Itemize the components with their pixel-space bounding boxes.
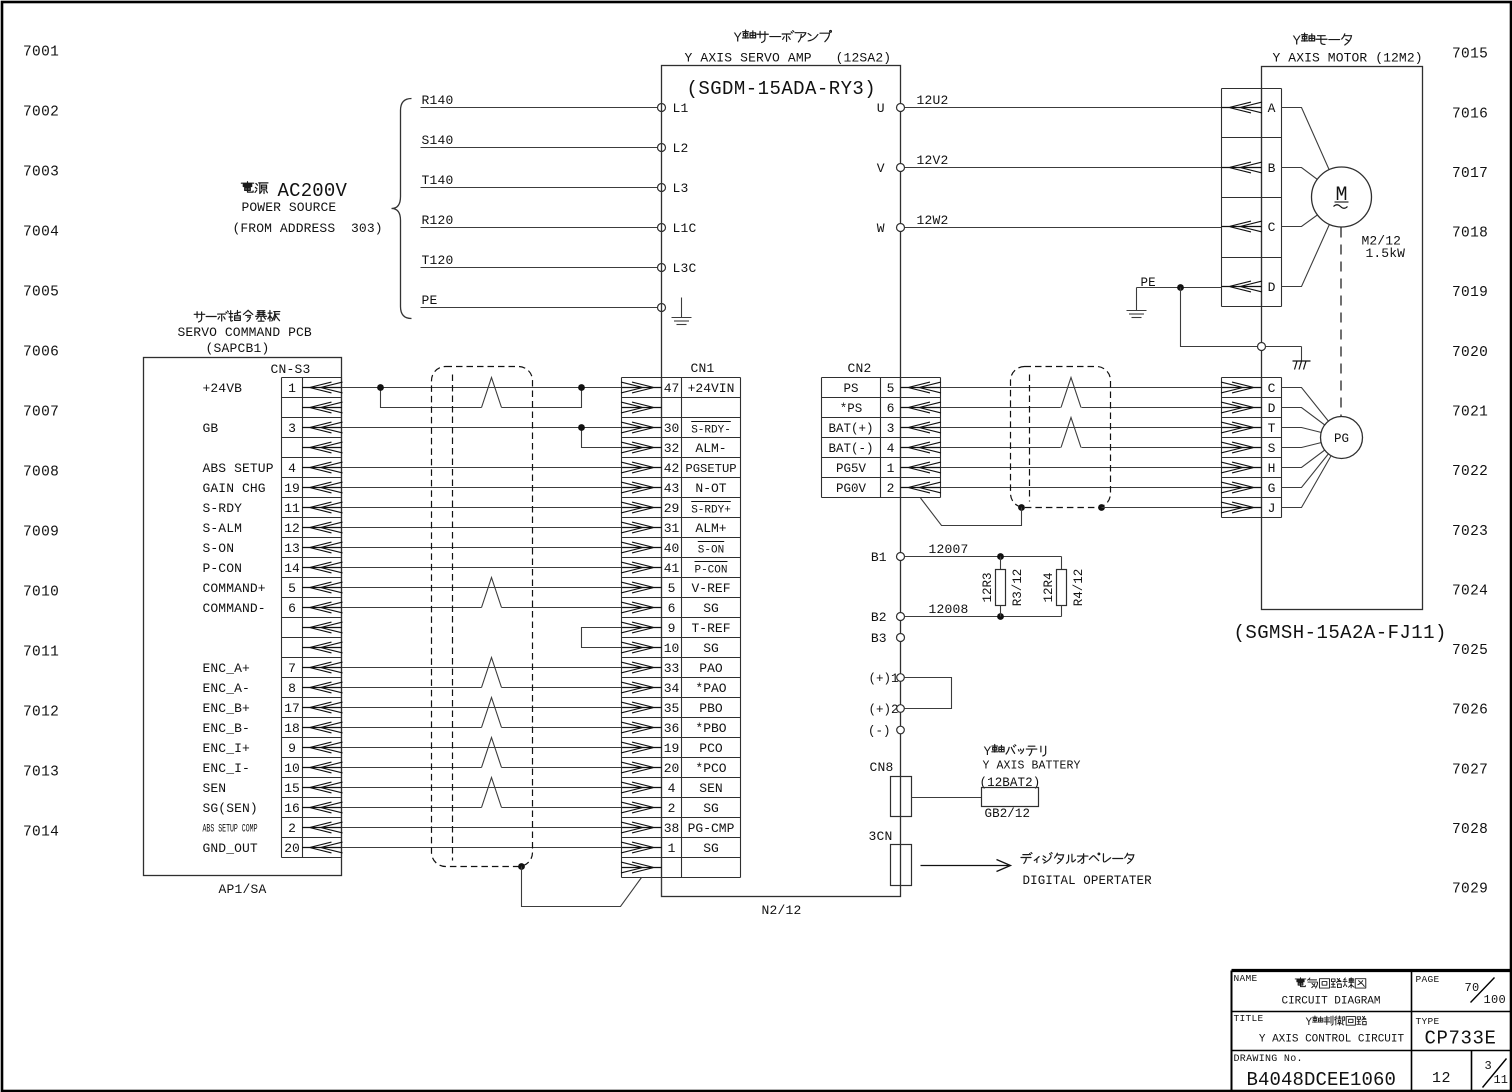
svg-text:N2/12: N2/12 bbox=[762, 903, 802, 918]
svg-text:9: 9 bbox=[668, 621, 676, 636]
svg-text:SG(SEN): SG(SEN) bbox=[203, 801, 258, 816]
svg-text:7008: 7008 bbox=[23, 465, 59, 481]
svg-text:BAT(-): BAT(-) bbox=[828, 442, 873, 456]
svg-text:18: 18 bbox=[284, 721, 300, 736]
svg-text:Y AXIS SERVO AMP (12SA2): Y AXIS SERVO AMP (12SA2) bbox=[685, 51, 892, 66]
svg-text:7012: 7012 bbox=[23, 705, 59, 721]
svg-text:10: 10 bbox=[284, 761, 300, 776]
svg-text:5: 5 bbox=[887, 381, 895, 396]
label power source JP 電源 AC200V bbox=[241, 180, 347, 202]
svg-text:12: 12 bbox=[284, 521, 300, 536]
svg-text:S-RDY: S-RDY bbox=[203, 501, 243, 516]
cable shield CN2 to encoder (dashed) bbox=[1011, 367, 1111, 508]
svg-text:29: 29 bbox=[664, 501, 680, 516]
svg-text:U: U bbox=[877, 101, 885, 116]
svg-text:5: 5 bbox=[668, 581, 676, 596]
ground symbol at amp PE terminal bbox=[681, 298, 683, 318]
svg-text:7017: 7017 bbox=[1452, 166, 1488, 182]
svg-text:12007: 12007 bbox=[929, 542, 969, 557]
svg-text:12008: 12008 bbox=[929, 602, 969, 617]
svg-text:Y: Y bbox=[1306, 1017, 1313, 1029]
svg-text:7010: 7010 bbox=[23, 585, 59, 601]
dashed shaft link motor to PG bbox=[1340, 228, 1342, 417]
svg-text:COMMAND+: COMMAND+ bbox=[203, 581, 266, 596]
svg-text:*PAO: *PAO bbox=[695, 681, 726, 696]
svg-text:42: 42 bbox=[664, 461, 680, 476]
svg-text:CN1: CN1 bbox=[691, 361, 715, 376]
wire CN2 to encoder connector y=427 bbox=[941, 427, 1222, 429]
svg-text:(SAPCB1): (SAPCB1) bbox=[206, 341, 270, 356]
svg-text:Y AXIS MOTOR (12M2): Y AXIS MOTOR (12M2) bbox=[1273, 51, 1423, 66]
svg-text:SG: SG bbox=[703, 841, 719, 856]
svg-text:7011: 7011 bbox=[23, 645, 59, 661]
svg-text:CN8: CN8 bbox=[870, 760, 894, 775]
svg-text:3: 3 bbox=[1485, 1059, 1492, 1073]
svg-text:11: 11 bbox=[1494, 1073, 1508, 1087]
right margin line numbers 7015-7029 bbox=[1452, 47, 1488, 898]
wire CN2 to encoder connector y=447 bbox=[941, 447, 1061, 449]
svg-text:PBO: PBO bbox=[699, 701, 723, 716]
svg-text:9: 9 bbox=[288, 741, 296, 756]
connector 3CN box bbox=[891, 845, 912, 886]
svg-text:T-REF: T-REF bbox=[691, 621, 730, 636]
chassis ground symbol bbox=[1293, 360, 1311, 362]
wire CN-S3 to CN1 row y=567 bbox=[342, 567, 622, 569]
svg-text:A: A bbox=[1268, 101, 1276, 116]
svg-text:Y AXIS CONTROL CIRCUIT: Y AXIS CONTROL CIRCUIT bbox=[1259, 1033, 1405, 1045]
wire CN-S3 to CN1 row y=747 bbox=[342, 747, 622, 749]
svg-text:10: 10 bbox=[664, 641, 680, 656]
svg-text:7028: 7028 bbox=[1452, 822, 1488, 838]
motor winding fan wires bbox=[1282, 108, 1342, 287]
svg-text:W: W bbox=[877, 221, 885, 236]
svg-text:4: 4 bbox=[668, 781, 676, 796]
connector CN-S3 pin labels and numbers bbox=[203, 381, 300, 856]
svg-text:P-CON: P-CON bbox=[203, 561, 243, 576]
svg-text:V: V bbox=[877, 161, 885, 176]
wire CN-S3 to CN1 row y=487 bbox=[342, 487, 622, 489]
svg-text:7001: 7001 bbox=[23, 45, 59, 61]
wire ground terminal to chassis ground bbox=[1266, 346, 1302, 348]
svg-text:7023: 7023 bbox=[1452, 524, 1488, 540]
svg-text:S-ON: S-ON bbox=[203, 541, 235, 556]
svg-text:12V2: 12V2 bbox=[917, 153, 949, 168]
wire CN-S3 to CN1 row y=607 bbox=[342, 607, 482, 609]
svg-text:7004: 7004 bbox=[23, 225, 59, 241]
svg-text:DIGITAL OPERTATER: DIGITAL OPERTATER bbox=[1023, 874, 1153, 888]
svg-text:Y AXIS BATTERY: Y AXIS BATTERY bbox=[983, 760, 1081, 773]
svg-text:4: 4 bbox=[288, 461, 296, 476]
svg-text:14: 14 bbox=[284, 561, 300, 576]
svg-text:8: 8 bbox=[288, 681, 296, 696]
terminal U on amp bbox=[897, 104, 905, 112]
connector CN1 pin numbers and names bbox=[664, 381, 737, 856]
svg-text:7016: 7016 bbox=[1452, 106, 1488, 122]
svg-text:7018: 7018 bbox=[1452, 226, 1488, 242]
svg-text:7022: 7022 bbox=[1452, 464, 1488, 480]
wire CN-S3 to CN1 row y=387 bbox=[342, 387, 622, 389]
svg-text:*PBO: *PBO bbox=[695, 721, 726, 736]
svg-text:DRAWING No.: DRAWING No. bbox=[1234, 1054, 1303, 1065]
terminal L3C on amp bbox=[658, 264, 666, 272]
svg-text:L3C: L3C bbox=[673, 261, 697, 276]
svg-text:B: B bbox=[1268, 161, 1276, 176]
terminal L1 on amp bbox=[658, 104, 666, 112]
encoder connector grid bbox=[1221, 378, 1223, 518]
svg-text:SG: SG bbox=[703, 801, 719, 816]
svg-text:12R4: 12R4 bbox=[1042, 572, 1056, 602]
svg-text:1: 1 bbox=[668, 841, 676, 856]
svg-text:S: S bbox=[1268, 441, 1276, 456]
terminal L3 on amp bbox=[658, 184, 666, 192]
svg-text:7002: 7002 bbox=[23, 105, 59, 121]
svg-text:+24VIN: +24VIN bbox=[688, 381, 735, 396]
connector CN1 arrows bbox=[621, 382, 662, 873]
svg-text:3: 3 bbox=[288, 421, 296, 436]
wire PE dot to motor ground terminal bbox=[1181, 288, 1258, 347]
svg-text:S-ALM: S-ALM bbox=[203, 521, 243, 536]
svg-text:B4048DCEE1060: B4048DCEE1060 bbox=[1247, 1069, 1397, 1091]
svg-text:ALM+: ALM+ bbox=[695, 521, 726, 536]
svg-text:2: 2 bbox=[668, 801, 676, 816]
connector CN1 grid bbox=[621, 378, 623, 878]
svg-text:PAO: PAO bbox=[699, 661, 723, 676]
svg-text:CIRCUIT DIAGRAM: CIRCUIT DIAGRAM bbox=[1281, 995, 1380, 1007]
svg-text:30: 30 bbox=[664, 421, 680, 436]
svg-text:SERVO COMMAND PCB: SERVO COMMAND PCB bbox=[178, 325, 312, 340]
svg-text:6: 6 bbox=[668, 601, 676, 616]
svg-text:7006: 7006 bbox=[23, 345, 59, 361]
svg-text:L2: L2 bbox=[673, 141, 689, 156]
wire CN-S3 to CN1 row y=547 bbox=[342, 547, 622, 549]
svg-text:Y: Y bbox=[734, 31, 743, 47]
battery GB2/12 box bbox=[982, 788, 1039, 807]
svg-text:7024: 7024 bbox=[1452, 583, 1488, 599]
title block frame bbox=[1232, 969, 1511, 972]
svg-text:BAT(+): BAT(+) bbox=[828, 422, 873, 436]
svg-text:35: 35 bbox=[664, 701, 680, 716]
label Y axis servo amp JP bbox=[734, 30, 832, 46]
cable shield CN-S3 to CN1 (dashed) bbox=[432, 367, 533, 867]
svg-text:20: 20 bbox=[284, 841, 300, 856]
wire CN-S3 to CN1 row y=767 bbox=[342, 767, 482, 769]
connector CN-S3 pin grid bbox=[281, 378, 283, 858]
wire CN-S3 to CN1 row y=527 bbox=[342, 527, 622, 529]
motor power connector arrows bbox=[1222, 102, 1263, 292]
motor M symbol bbox=[1312, 167, 1372, 227]
left margin line numbers 7001-7014 bbox=[23, 45, 59, 841]
svg-text:GB: GB bbox=[203, 421, 219, 436]
svg-text:Y: Y bbox=[1293, 34, 1302, 50]
svg-text:SEN: SEN bbox=[203, 781, 227, 796]
svg-text:S-RDY+: S-RDY+ bbox=[691, 504, 731, 516]
motor power connector pins A-D bbox=[1268, 101, 1276, 295]
svg-text:4: 4 bbox=[887, 441, 895, 456]
svg-text:(FROM ADDRESS 303): (FROM ADDRESS 303) bbox=[233, 221, 383, 236]
encoder PG fan wires bbox=[1282, 388, 1342, 508]
wire CN-S3 to CN1 row y=427 bbox=[342, 427, 622, 429]
connector CN2 grid bbox=[821, 378, 823, 498]
resistor 12R3 R3/12 bbox=[1000, 557, 1002, 570]
junction dots on B1/B2 wires bbox=[997, 553, 1004, 560]
svg-text:3: 3 bbox=[887, 421, 895, 436]
wire CN-S3 to CN1 row y=667 bbox=[342, 667, 622, 669]
svg-text:7013: 7013 bbox=[23, 765, 59, 781]
svg-text:S-RDY-: S-RDY- bbox=[691, 424, 731, 436]
svg-text:70: 70 bbox=[1465, 981, 1480, 995]
wire CN2 to encoder connector y=467 bbox=[941, 467, 1222, 469]
svg-text:1.5kW: 1.5kW bbox=[1366, 246, 1406, 261]
branch GB to ALM- bbox=[582, 428, 622, 448]
svg-text:11: 11 bbox=[284, 501, 300, 516]
terminal W on amp bbox=[897, 224, 905, 232]
terminal L1C on amp bbox=[658, 224, 666, 232]
svg-text:ENC_B+: ENC_B+ bbox=[203, 701, 251, 716]
svg-text:36: 36 bbox=[664, 721, 680, 736]
svg-text:7025: 7025 bbox=[1452, 643, 1488, 659]
svg-text:33: 33 bbox=[664, 661, 680, 676]
encoder connector pins C-J bbox=[1268, 381, 1276, 516]
svg-text:7015: 7015 bbox=[1452, 47, 1488, 63]
encoder PG symbol bbox=[1321, 417, 1363, 459]
terminal L2 on amp bbox=[658, 144, 666, 152]
servo command PCB box AP1/SA bbox=[144, 358, 342, 876]
arrow 3CN to digital operator bbox=[921, 865, 1009, 867]
svg-text:GB2/12: GB2/12 bbox=[985, 807, 1031, 821]
svg-text:COMMAND-: COMMAND- bbox=[203, 601, 266, 616]
svg-text:1: 1 bbox=[288, 381, 296, 396]
svg-text:(-): (-) bbox=[868, 724, 891, 738]
wire CN-S3 to CN1 row y=587 bbox=[342, 587, 622, 589]
svg-text:7009: 7009 bbox=[23, 525, 59, 541]
svg-text:7005: 7005 bbox=[23, 285, 59, 301]
svg-text:CP733E: CP733E bbox=[1425, 1028, 1497, 1050]
svg-text:CN2: CN2 bbox=[848, 361, 872, 376]
label Y axis motor JP bbox=[1293, 33, 1352, 49]
connector CN2 arrows bbox=[901, 382, 942, 493]
svg-text:19: 19 bbox=[664, 741, 680, 756]
wire CN-S3 to CN1 row y=707 bbox=[342, 707, 622, 709]
svg-text:100: 100 bbox=[1484, 993, 1507, 1007]
connector CN8 box bbox=[891, 777, 912, 817]
svg-text:+24VB: +24VB bbox=[203, 381, 243, 396]
svg-text:12: 12 bbox=[1432, 1070, 1451, 1087]
svg-text:38: 38 bbox=[664, 821, 680, 836]
svg-text:40: 40 bbox=[664, 541, 680, 556]
svg-text:1: 1 bbox=[887, 461, 895, 476]
svg-text:7027: 7027 bbox=[1452, 762, 1488, 778]
wire CN2 to encoder connector y=387 bbox=[941, 387, 1222, 389]
svg-text:D: D bbox=[1268, 280, 1276, 295]
motor box 12M2 bbox=[1262, 67, 1423, 610]
svg-text:7020: 7020 bbox=[1452, 345, 1488, 361]
svg-text:M: M bbox=[1335, 184, 1347, 207]
svg-text:SG: SG bbox=[703, 641, 719, 656]
svg-text:B3: B3 bbox=[871, 631, 887, 646]
svg-text:L1C: L1C bbox=[673, 221, 697, 236]
svg-text:N-OT: N-OT bbox=[695, 481, 726, 496]
wire CN-S3 to CN1 row y=727 bbox=[342, 727, 482, 729]
svg-text:L3: L3 bbox=[673, 181, 689, 196]
svg-text:PG5V: PG5V bbox=[836, 462, 867, 476]
wire CN-S3 to CN1 row y=467 bbox=[342, 467, 622, 469]
svg-text:7019: 7019 bbox=[1452, 285, 1488, 301]
svg-text:TITLE: TITLE bbox=[1234, 1013, 1264, 1024]
svg-text:B1: B1 bbox=[871, 550, 887, 565]
svg-text:C: C bbox=[1268, 381, 1276, 396]
wire CN8 to battery bbox=[912, 797, 982, 799]
svg-text:ABS SETUP: ABS SETUP bbox=[203, 461, 274, 476]
junction dot on PE wire bbox=[1177, 284, 1184, 291]
svg-text:R3/12: R3/12 bbox=[1011, 569, 1025, 607]
connector CN-S3 arrows bbox=[302, 382, 343, 853]
ground symbol at PE bbox=[1136, 291, 1138, 311]
svg-text:ENC_A+: ENC_A+ bbox=[203, 661, 251, 676]
svg-text:PAGE: PAGE bbox=[1416, 974, 1440, 985]
svg-text:T120: T120 bbox=[422, 253, 454, 268]
svg-text:ENC_I-: ENC_I- bbox=[203, 761, 250, 776]
twisted pair return loop +24V bbox=[381, 388, 482, 408]
svg-text:43: 43 bbox=[664, 481, 680, 496]
svg-text:*PCO: *PCO bbox=[695, 761, 726, 776]
svg-text:3CN: 3CN bbox=[869, 829, 893, 844]
junction dots on +24V wire bbox=[377, 384, 384, 391]
svg-text:*PS: *PS bbox=[840, 402, 863, 416]
resistor 12R4 R4/12 bbox=[1061, 557, 1063, 570]
svg-text:S140: S140 bbox=[422, 133, 454, 148]
svg-text:ENC_B-: ENC_B- bbox=[203, 721, 250, 736]
svg-text:PE: PE bbox=[422, 293, 438, 308]
wire N2/12 from CN1 shell bbox=[661, 878, 663, 897]
svg-text:AC200V: AC200V bbox=[278, 180, 348, 202]
svg-text:C: C bbox=[1268, 220, 1276, 235]
svg-text:PS: PS bbox=[843, 382, 858, 396]
svg-text:SEN: SEN bbox=[699, 781, 722, 796]
wire CN-S3 to CN1 row y=687 bbox=[342, 687, 482, 689]
svg-text:15: 15 bbox=[284, 781, 300, 796]
wire CN-S3 to CN1 row y=827 bbox=[342, 827, 622, 829]
svg-text:ENC_I+: ENC_I+ bbox=[203, 741, 251, 756]
jumper (+)1 to (+)2 bbox=[905, 678, 952, 709]
svg-text:PGSETUP: PGSETUP bbox=[685, 462, 736, 476]
svg-text:H: H bbox=[1268, 461, 1276, 476]
wire CN-S3 to CN1 row y=787 bbox=[342, 787, 622, 789]
connector CN2 labels and pins bbox=[828, 381, 894, 496]
wire CN-S3 to CN1 row y=507 bbox=[342, 507, 622, 509]
svg-text:GAIN CHG: GAIN CHG bbox=[203, 481, 266, 496]
svg-text:(+)2: (+)2 bbox=[868, 703, 898, 717]
shield drain wire to CN1 shell bbox=[518, 863, 525, 870]
svg-text:12U2: 12U2 bbox=[917, 93, 949, 108]
svg-text:47: 47 bbox=[664, 381, 680, 396]
svg-text:ABS SETUP COMP: ABS SETUP COMP bbox=[203, 823, 258, 835]
svg-text:ENC_A-: ENC_A- bbox=[203, 681, 250, 696]
svg-text:T140: T140 bbox=[422, 173, 454, 188]
svg-text:20: 20 bbox=[664, 761, 680, 776]
svg-text:41: 41 bbox=[664, 561, 680, 576]
svg-text:7: 7 bbox=[288, 661, 296, 676]
svg-text:16: 16 bbox=[284, 801, 300, 816]
svg-text:S-ON: S-ON bbox=[698, 544, 724, 556]
wire CN-S3 to CN1 row y=807 bbox=[342, 807, 482, 809]
terminal PE on amp bbox=[658, 304, 666, 312]
svg-text:SG: SG bbox=[703, 601, 719, 616]
svg-text:6: 6 bbox=[288, 601, 296, 616]
label Y axis battery JP bbox=[984, 744, 1046, 759]
svg-text:6: 6 bbox=[887, 401, 895, 416]
svg-text:AP1/SA: AP1/SA bbox=[219, 882, 267, 897]
svg-text:J: J bbox=[1268, 501, 1276, 516]
svg-text:G: G bbox=[1268, 481, 1276, 496]
servo amp box 12SA2 bbox=[662, 66, 901, 897]
wire CN2 to encoder connector y=407 bbox=[941, 407, 1061, 409]
svg-text:B2: B2 bbox=[871, 610, 887, 625]
label servo command PCB JP サーボ指令基板 bbox=[194, 310, 280, 322]
svg-text:CN-S3: CN-S3 bbox=[271, 362, 311, 377]
motor ground terminal circle bbox=[1258, 343, 1266, 351]
svg-text:R120: R120 bbox=[422, 213, 454, 228]
svg-text:17: 17 bbox=[284, 701, 300, 716]
label digital operator JP bbox=[1021, 853, 1134, 864]
motor power connector grid bbox=[1221, 89, 1223, 307]
svg-text:ALM-: ALM- bbox=[695, 441, 726, 456]
svg-text:13: 13 bbox=[284, 541, 300, 556]
svg-text:31: 31 bbox=[664, 521, 680, 536]
svg-text:L1: L1 bbox=[673, 101, 689, 116]
svg-text:POWER SOURCE: POWER SOURCE bbox=[242, 200, 337, 215]
svg-text:D: D bbox=[1268, 401, 1276, 416]
svg-text:(SGMSH-15A2A-FJ11): (SGMSH-15A2A-FJ11) bbox=[1234, 622, 1447, 644]
svg-text:7021: 7021 bbox=[1452, 405, 1488, 421]
svg-text:T: T bbox=[1268, 421, 1276, 436]
svg-text:PG0V: PG0V bbox=[836, 482, 867, 496]
svg-text:GND_OUT: GND_OUT bbox=[203, 841, 258, 856]
svg-text:32: 32 bbox=[664, 441, 680, 456]
wire CN2 to encoder connector y=487 bbox=[941, 487, 1222, 489]
svg-text:PCO: PCO bbox=[699, 741, 723, 756]
svg-text:P-CON: P-CON bbox=[694, 564, 727, 576]
jumper T-REF to SG bbox=[582, 628, 622, 648]
svg-text:PG-CMP: PG-CMP bbox=[688, 821, 735, 836]
shield drain to CN2 shell bbox=[1018, 504, 1025, 511]
svg-text:2: 2 bbox=[887, 481, 895, 496]
svg-text:R4/12: R4/12 bbox=[1072, 569, 1086, 607]
svg-text:12R3: 12R3 bbox=[981, 572, 995, 602]
svg-text:V-REF: V-REF bbox=[691, 581, 730, 596]
shield drain to encoder J pin bbox=[1098, 504, 1105, 511]
svg-text:19: 19 bbox=[284, 481, 300, 496]
svg-text:TYPE: TYPE bbox=[1416, 1016, 1440, 1027]
brace for power source bbox=[392, 99, 412, 319]
svg-text:7029: 7029 bbox=[1452, 882, 1488, 898]
svg-text:Y: Y bbox=[984, 744, 992, 759]
svg-text:34: 34 bbox=[664, 681, 680, 696]
svg-text:2: 2 bbox=[288, 821, 296, 836]
svg-text:7003: 7003 bbox=[23, 165, 59, 181]
svg-text:7007: 7007 bbox=[23, 405, 59, 421]
encoder connector arrows bbox=[1221, 382, 1262, 513]
svg-text:7026: 7026 bbox=[1452, 703, 1488, 719]
svg-text:7014: 7014 bbox=[23, 825, 59, 841]
svg-text:NAME: NAME bbox=[1234, 973, 1258, 984]
wire CN-S3 to CN1 row y=847 bbox=[342, 847, 622, 849]
svg-text:(SGDM-15ADA-RY3): (SGDM-15ADA-RY3) bbox=[687, 78, 877, 100]
svg-text:5: 5 bbox=[288, 581, 296, 596]
svg-text:12W2: 12W2 bbox=[917, 213, 949, 228]
svg-text:R140: R140 bbox=[422, 93, 454, 108]
svg-text:PG: PG bbox=[1334, 432, 1349, 446]
svg-text:(+)1: (+)1 bbox=[868, 672, 898, 686]
